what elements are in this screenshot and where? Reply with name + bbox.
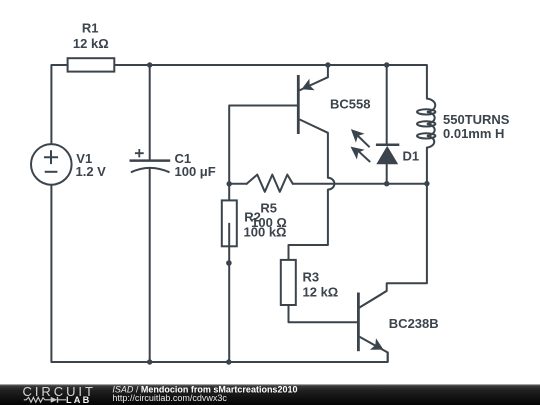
- CircuitLab logo symbol: [24, 397, 66, 403]
- svg-text:R3: R3: [303, 269, 320, 284]
- resistor R1: [68, 58, 115, 71]
- capacitor C1: [130, 149, 171, 172]
- transistor Q1 BC558: [298, 65, 328, 134]
- wire inductor bottom to BC238B collector: [359, 148, 427, 308]
- node R2 lower wire junction: [226, 260, 232, 266]
- wire R5 right to inductor vertical: [293, 183, 427, 185]
- wire C1 branch bottom: [149, 168, 151, 362]
- svg-text:12 kΩ: 12 kΩ: [303, 285, 339, 300]
- svg-text:http://circuitlab.com/cdvwx3c: http://circuitlab.com/cdvwx3c: [112, 393, 227, 403]
- svg-text:R5: R5: [260, 200, 277, 215]
- wire R5 left lead: [229, 183, 247, 185]
- svg-text:LAB: LAB: [66, 395, 91, 405]
- resistor R2: [222, 200, 237, 246]
- inductor L1: [417, 99, 435, 148]
- svg-text:BC558: BC558: [330, 97, 370, 112]
- svg-text:550TURNS: 550TURNS: [443, 112, 510, 127]
- svg-text:1.2 V: 1.2 V: [76, 164, 107, 179]
- voltage source V1: [31, 144, 72, 185]
- node R2 bottom: [226, 359, 231, 364]
- svg-text:R1: R1: [82, 21, 99, 36]
- svg-text:0.01mm H: 0.01mm H: [443, 126, 504, 141]
- svg-text:D1: D1: [403, 149, 420, 164]
- svg-text:12 kΩ: 12 kΩ: [73, 36, 109, 51]
- node D1 top: [384, 62, 389, 67]
- resistor R3: [281, 260, 296, 305]
- resistor R5: [247, 175, 293, 192]
- node BC558 emitter top: [325, 62, 330, 67]
- node C1 bottom: [147, 359, 152, 364]
- wire D1 bottom lead: [386, 164, 388, 183]
- transistor Q2 BC238B: [358, 291, 387, 362]
- wire top rail: [51, 65, 427, 144]
- wire R2 bottom to ground rail: [228, 223, 230, 362]
- wire left rail bottom: [51, 185, 387, 362]
- wire C1 branch top: [149, 65, 151, 161]
- svg-text:BC238B: BC238B: [389, 316, 439, 331]
- node C1 top: [147, 62, 152, 67]
- svg-text:100 kΩ: 100 kΩ: [244, 224, 287, 239]
- node inductor junction: [424, 181, 429, 186]
- LED D1: [351, 129, 400, 164]
- node D1 bottom: [384, 181, 389, 186]
- node R5/R2 junction: [227, 181, 232, 186]
- wire R3 bottom to BC238B base: [289, 305, 358, 322]
- svg-text:100 μF: 100 μF: [175, 164, 216, 179]
- wire BC558 collector down with hop over wire: [289, 133, 335, 260]
- wire BC558 base to R2 junction: [229, 106, 297, 201]
- wire D1 branch top: [386, 65, 388, 145]
